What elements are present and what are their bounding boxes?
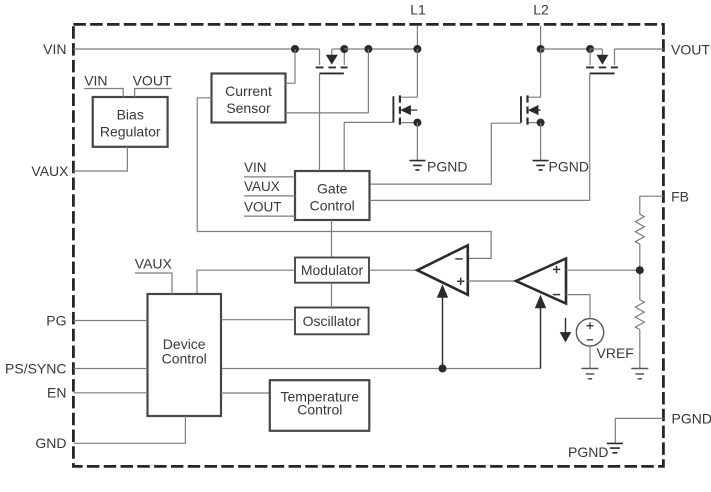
svg-text:PGND: PGND [549,158,589,174]
transistor Q1 high-side PMOS pass [316,49,348,73]
ground earth under divider [631,369,648,379]
wire GND [73,416,185,443]
wire VIN dot to Current Sensor top right [286,49,296,83]
svg-text:Current: Current [225,83,272,99]
diode D1 body diode of Q1 [327,49,345,64]
svg-text:PG: PG [46,312,66,328]
svg-text:L2: L2 [533,1,549,17]
wire Modulator to Oscillator [331,283,333,308]
pin PG label [46,312,66,328]
svg-text:Control: Control [310,198,355,214]
node VAUX input of Gate Control [244,179,295,196]
wire Q3 gate lead from Gate Control [370,123,522,184]
wire Gate Control right to Q4 gate [370,199,590,201]
wire Q4 to VOUT pin [615,48,664,50]
wire Q4 gate lead [589,73,591,200]
svg-text:PGND: PGND [672,410,711,426]
pin EN label [47,385,66,401]
wire Q1 gate lead to Gate Control [319,73,321,171]
wire Device Control to Temperature Control [221,392,270,394]
svg-text:VOUT: VOUT [671,41,710,57]
wire Q2 drain to L1 node [416,49,418,97]
node junction dot VIN/CurrentSensor [291,45,299,53]
soft start arrow symbol [560,318,571,342]
ground PGND under Q2 [409,158,467,174]
pin L2 label [533,1,549,17]
wire U2 minus input to VREF [566,295,590,319]
block Oscillator [295,308,369,335]
svg-text:PGND: PGND [427,158,467,174]
pin PGND right label [672,410,711,426]
wire PGND pin [615,418,663,443]
wire VIN rail [73,48,319,50]
op-amp U2 error amplifier [516,259,566,304]
svg-text:VIN: VIN [244,160,267,175]
svg-text:EN: EN [47,385,66,401]
svg-text:GND: GND [35,435,66,451]
wire U1 plus input from U2 output [468,280,516,282]
wire Q2 gate lead from Gate Control [344,122,393,171]
op-amp U1 PWM comparator [417,245,468,294]
svg-text:FB: FB [671,188,689,204]
wire divider middle [639,244,641,300]
svg-text:L1: L1 [410,1,426,17]
resistor R2 lower feedback [635,300,644,330]
wire EN [73,392,147,394]
wire Q2 source to PGND [416,123,418,161]
wire Device Control to Oscillator [221,319,295,321]
wire Current Sensor right to rail tap [286,112,369,114]
transistor Q4 high-side PMOS rectifier [586,49,618,73]
svg-text:Modulator: Modulator [301,262,364,278]
wire Device Control to Modulator [197,270,295,294]
svg-text:Control: Control [162,350,207,366]
wire PS/SYNC [73,368,147,370]
block Modulator [295,258,369,283]
node VOUT input of Bias Regulator [133,72,172,97]
wire Modulator to comparator U1 [369,269,417,271]
svg-text:Gate: Gate [317,181,348,197]
wire rail L2 to Q4 [541,48,591,50]
wire PG [73,320,147,322]
svg-text:Sensor: Sensor [226,100,271,116]
wire Bias Regulator output to VAUX pin [73,147,127,171]
pin VAUX label [31,163,69,179]
wire FB pin [640,196,664,214]
pin L1 label [410,1,426,17]
pin VIN label [43,41,66,57]
svg-text:VREF: VREF [597,345,634,361]
node VAUX input of Device Control [135,255,173,294]
block Device Control [148,294,222,416]
block Temperature Control [270,380,370,431]
wire U2 plus input to FB divider [566,269,640,271]
node VIN input of Bias Regulator [84,72,123,97]
wire Q3 source to PGND [540,123,542,161]
node junction dot L2 [537,45,545,53]
node junction dot Q3 source [537,119,545,127]
wire Q3 drain up to L2 node [540,49,542,97]
pin PS/SYNC label [5,361,66,377]
VREF source V1 [576,319,634,361]
wire Current Sensor left output down [197,98,211,232]
node VIN input of Gate Control [244,160,295,177]
svg-text:VIN: VIN [43,41,66,57]
svg-text:PS/SYNC: PS/SYNC [5,361,66,377]
ground PGND under Q3 [533,158,589,174]
node junction dot L1 [413,45,421,53]
transistor Q3 low-side NMOS right [521,95,541,124]
wire arrow into U1 [437,285,447,369]
wire sense tap down [367,49,369,113]
wire arrow into U2 [535,296,545,369]
wire rail to node [344,48,417,50]
pin FB label [671,188,689,204]
node junction dot control/arrow1 [439,365,447,373]
svg-text:VAUX: VAUX [31,163,69,179]
wire control line from Device Control to arrows [221,368,541,370]
pin GND label [35,435,66,451]
svg-text:VIN: VIN [84,72,107,88]
wire R2 to ground [639,330,641,369]
wire VREF to ground [589,346,591,368]
block Bias Regulator [93,97,168,147]
wire sense loop to comparator minus [197,232,491,259]
node junction dot Q2 source [413,119,421,127]
node junction dot Q1 drain [340,45,348,53]
transistor Q2 low-side NMOS left [393,95,417,124]
wire L1 pin [416,26,418,49]
svg-text:VAUX: VAUX [135,255,173,271]
block Current Sensor [212,74,286,123]
ground earth under VREF [582,369,599,379]
svg-text:Regulator: Regulator [100,123,161,139]
node VOUT input of Gate Control [244,199,295,216]
diode D2 body diode of Q4 [590,49,608,64]
wire L2 pin [540,26,542,49]
svg-text:Bias: Bias [117,106,144,122]
IC boundary dashed border [73,24,663,466]
ground PGND bottom [568,443,623,460]
svg-text:VOUT: VOUT [244,199,282,214]
block Gate Control [295,171,370,220]
svg-text:Oscillator: Oscillator [303,313,362,329]
svg-text:VOUT: VOUT [133,72,172,88]
resistor R1 upper feedback [635,214,644,244]
node junction dot FB tap [636,266,644,274]
svg-text:VAUX: VAUX [244,179,280,194]
pin VOUT label [671,41,710,57]
wire Gate Control bottom to Modulator [331,220,333,258]
svg-text:Control: Control [297,402,342,418]
node junction dot Q4 source [586,45,594,53]
node junction dot rail/sense [364,45,372,53]
svg-text:PGND: PGND [568,444,608,460]
